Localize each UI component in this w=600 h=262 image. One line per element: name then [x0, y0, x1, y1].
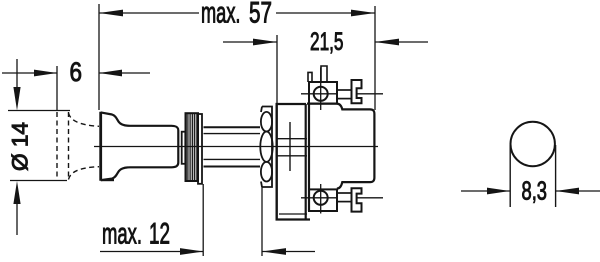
dimension 6 — [2, 57, 150, 111]
dimension Ø14 — [8, 59, 71, 235]
svg-text:6: 6 — [70, 57, 83, 87]
threaded bushing — [204, 127, 261, 166]
svg-text:8,3: 8,3 — [522, 176, 548, 206]
hex nut (side view) — [260, 107, 272, 188]
svg-text:Ø 14: Ø 14 — [8, 122, 33, 171]
centerline — [94, 146, 378, 148]
dimension 8,3 — [461, 145, 600, 207]
terminal B (bottom) screw circle — [301, 184, 337, 214]
mounting hole detail: circle — [511, 122, 555, 166]
terminal A (top) screw circle — [301, 68, 337, 111]
phantom knob (pulled position, dashed) — [57, 112, 99, 180]
svg-text:57: 57 — [249, 0, 272, 30]
switch body — [307, 104, 374, 189]
terminal B (bottom) clamp screw side view — [338, 188, 384, 211]
terminal A (top) clamp plate — [308, 66, 337, 104]
dimension max. 57 — [99, 0, 375, 110]
terminal B (bottom) clamp plate — [309, 189, 337, 211]
collar between knob and knurled nut — [182, 132, 186, 164]
svg-text:max.: max. — [102, 218, 142, 251]
svg-text:21,5: 21,5 — [310, 28, 344, 56]
knob (solid) — [101, 112, 179, 181]
dimension 21,5 — [223, 6, 428, 110]
mounting plate (front flange) — [276, 104, 311, 221]
terminal A (top) clamp screw side view — [338, 80, 384, 103]
svg-text:12: 12 — [149, 218, 170, 251]
knurled nut — [186, 113, 203, 184]
svg-text:max.: max. — [201, 0, 241, 30]
dimension max. 12 — [100, 184, 315, 256]
